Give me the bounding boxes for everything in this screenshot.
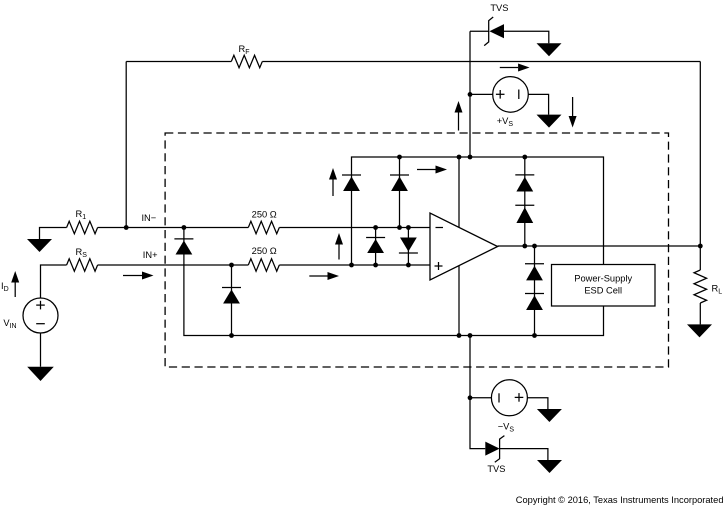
arrow current up into clamp column A [329,168,337,196]
ground (TVS top surge) [537,43,562,56]
wire +VS source left [470,93,493,95]
svg-text:250 Ω: 250 Ω [252,210,277,220]
svg-text:IN+: IN+ [143,250,158,260]
resistor RF [231,55,262,67]
diode D1 IN- to V- rail [174,239,193,255]
junction output clamp upper/output [522,244,527,249]
junction output clamp lower/output [532,244,537,249]
wire feedback left vertical to IN- node [125,62,127,228]
svg-text:ESD Cell: ESD Cell [584,286,622,296]
svg-text:RL: RL [712,284,723,296]
wire +VS source right to surge ground [528,94,548,114]
op-amp U1 [430,213,498,280]
arrow current up toward +VS node [455,101,463,131]
junction output clamp/V- rail [532,333,537,338]
arrow current up into differential clamp [335,233,343,260]
wire RL load: output node down through RL to ground [699,246,701,270]
junction up-clamp/IN- [373,225,378,230]
svg-text:R1: R1 [76,209,87,221]
resistor 250ohm (IN- line) [248,221,279,233]
node -VS [468,395,473,400]
wire 250ohm to op-amp minus [279,227,430,229]
diode output clamp lower 2 [525,294,544,311]
device package dashed boundary [165,133,668,367]
source -VS [491,380,527,416]
svg-text:ID: ID [1,281,9,293]
wire IN- line: ground stub, R1, to op-amp inverting input [40,228,67,240]
wire right vertical: top wire down to output node [699,62,701,247]
node +VS [468,92,473,97]
arrow ID current up [11,271,19,297]
wire main vertical lower: V- rail to -VS node to TVS bottom [470,336,485,449]
arrow current right after 250ohm [309,272,339,280]
junction D2/V- rail [229,333,234,338]
diode differential clamp up [366,238,385,254]
junction output clamp/V+ rail [522,155,527,160]
diode differential clamp down [399,238,418,254]
svg-text:TVS: TVS [490,3,508,13]
source +VS [493,77,529,113]
wire TVS top horizontal [470,30,489,32]
junction column B/V+ rail [397,155,402,160]
ground (VIN) [27,367,54,381]
junction feedback/IN- [124,225,129,230]
svg-text:TVS: TVS [487,464,505,474]
arrow current right after RS [123,272,154,280]
svg-text:Copyright © 2016, Texas Instru: Copyright © 2016, Texas Instruments Inco… [516,495,724,505]
svg-text:Power-Supply: Power-Supply [574,274,632,284]
resistor 250ohm (IN+ line) [248,259,279,271]
junction up-clamp/IN+ [373,263,378,268]
wire -VS source right to surge ground [528,398,548,409]
wire input clamp diode stubs (antiparallel pair) [375,228,377,266]
resistor RL [694,270,707,303]
power-supply ESD cell U2 [552,265,656,307]
junction down-clamp/IN+ [406,263,411,268]
wire IN+ line: VIN corner, RS [41,265,67,298]
TVS diode top (at +VS) [484,17,504,46]
diode output clamp lower 1 [525,264,544,281]
wire op-amp output line [498,245,701,247]
junction op-amp supply/V+ rail [457,155,462,160]
TVS diode bottom (at -VS) [485,436,504,463]
ground (TVS bottom surge) [537,460,562,473]
junction column B/IN- [397,225,402,230]
source VIN [23,298,58,333]
wire main vertical: TVS top node through +VS node to V+ rail [469,31,471,157]
wire TVS top anode to surge ground [504,31,549,43]
svg-text:−VS: −VS [498,421,515,433]
wire VIN to ground [40,333,42,367]
svg-text:RS: RS [76,247,88,259]
diode output clamp upper 1 [515,175,534,192]
ground (+VS surge) [537,115,562,128]
junction main vertical/V- rail [468,333,473,338]
arrow current right above +VS [500,64,530,72]
svg-text:+VS: +VS [497,116,514,128]
wire -VS source left [470,397,491,399]
wire 250ohm to op-amp plus [279,264,430,266]
junction main vertical/V+ rail [468,155,473,160]
node VOUT [698,244,703,249]
diode input clamp to V+ (IN+ column A) [342,175,361,191]
svg-text:RF: RF [239,44,250,56]
diode D2 IN+ to V- rail [222,288,241,304]
arrow current down at +VS ground [569,97,577,128]
wire output clamp lower column [534,246,536,336]
ground (R1) [27,239,52,252]
wire feedback top: output node to RF to IN- vertical [126,61,231,63]
junction column A/IN+ [349,263,354,268]
junction D2/IN+ [229,263,234,268]
resistor R1 [67,221,98,233]
junction down-clamp/IN- [406,225,411,230]
svg-text:IN−: IN− [141,213,156,223]
wire inner rails: clamp column A, V+ rail, right vertical, V- rail, ESD diode D1 column [184,157,604,336]
wire RS to 250ohm [98,264,249,266]
junction op-amp supply/V- rail [457,333,462,338]
diode input clamp to V+ (IN- column B) [390,175,409,191]
arrow current right along V+ rail [417,166,447,174]
wire TVS bottom cathode to surge ground [500,449,548,460]
svg-text:VIN: VIN [3,318,16,330]
diode output clamp upper 2 [515,205,534,223]
ground (RL) [687,324,712,337]
wire RF right to output top corner [262,61,700,63]
wire output clamp upper column [524,157,526,246]
wire op-amp supply vertical [458,157,460,336]
wire R1 to op-amp minus input [98,227,249,229]
ground (-VS surge) [537,409,562,422]
wire ESD diode D2 column (IN+ to V- rail) [231,265,233,336]
resistor RS [67,259,98,271]
svg-text:250 Ω: 250 Ω [252,246,277,256]
wire down-clamp diode stub [407,228,409,266]
wire clamp column B (V+ rail to IN- node) [399,157,401,228]
junction D1/IN- [182,225,187,230]
